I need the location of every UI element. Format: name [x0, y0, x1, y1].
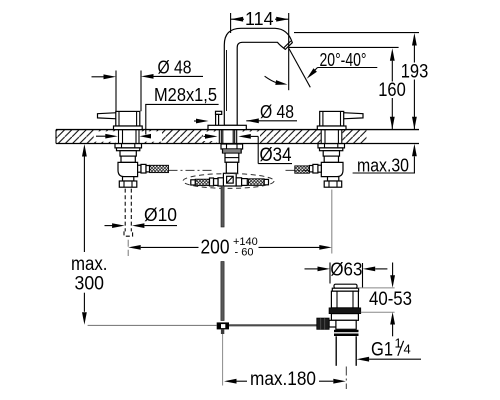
tee right connector [236, 178, 247, 186]
dim max.300 [71, 144, 108, 325]
right handle centreline [331, 190, 333, 254]
label 20°-40° [307, 50, 378, 79]
horizontal actuating rod right segment [229, 324, 317, 326]
hose centreline right [286, 169, 313, 171]
left handle dashed inlet pipes [124, 189, 133, 256]
left handle body [116, 111, 140, 126]
spout tube with curved outlet [224, 28, 292, 125]
svg-text:Ø63: Ø63 [330, 260, 362, 280]
left handle shank in deck [119, 130, 140, 144]
rod clamp [217, 322, 229, 334]
right handle mounting nut [318, 144, 345, 151]
dim 114 top width [231, 9, 289, 90]
tee left connector [210, 178, 224, 186]
hose centreline left [169, 169, 215, 171]
swivel arc arrow [265, 76, 288, 85]
tee left braided hose [191, 179, 210, 185]
spout escutcheon flange [208, 125, 246, 129]
dim Ø48 left handle [92, 58, 204, 113]
dim max.30 [353, 144, 417, 176]
left handle elbow [118, 162, 138, 176]
drain flange plug top [332, 284, 358, 291]
pop-up rod lower [221, 262, 224, 321]
drain centreline [345, 367, 347, 390]
deck arrow left of left-handle shank [96, 134, 118, 139]
dim Ø48 spout base [194, 102, 297, 123]
center tee block [223, 173, 236, 186]
right handle body [320, 111, 344, 126]
svg-text:- 60: - 60 [235, 246, 254, 258]
spout lift-rod knob [216, 111, 222, 125]
horizontal actuating rod left segment [88, 324, 217, 326]
left hose nipple [138, 164, 150, 173]
svg-text:114: 114 [245, 9, 274, 29]
left handle lever [98, 113, 118, 119]
spout shank in deck hole [219, 130, 236, 144]
dim 193 vertical [401, 33, 429, 129]
right handle shank in deck [321, 130, 342, 144]
right handle valve body [323, 151, 339, 163]
right handle escutcheon flange [317, 126, 346, 130]
right braided hose [295, 166, 310, 173]
label G1 1/4 [357, 336, 421, 362]
svg-text:G1: G1 [371, 340, 393, 361]
left handle valve body [120, 151, 136, 163]
drain body middle [331, 314, 358, 330]
dim max.180 [224, 369, 346, 390]
drain bottom collars [334, 330, 359, 336]
dim 160 vertical [378, 48, 406, 129]
left handle bottom fitting [119, 177, 137, 188]
drain gasket ring [329, 308, 361, 314]
svg-text:M28x1,5: M28x1,5 [154, 84, 217, 105]
left handle escutcheon flange [114, 126, 143, 130]
svg-text:300: 300 [75, 273, 105, 294]
spout mounting nut below deck [221, 144, 243, 153]
svg-text:4: 4 [404, 342, 411, 357]
clamp extension line down [222, 334, 224, 386]
right handle bottom fitting [324, 177, 342, 188]
dim Ø10 [105, 205, 178, 228]
right hose nipple [309, 164, 321, 173]
svg-text:Ø34: Ø34 [260, 145, 292, 166]
left handle mounting nut [115, 144, 142, 151]
left braided hose [150, 165, 169, 172]
dim 160 extension line [289, 46, 399, 48]
dim 40-53 [359, 263, 413, 337]
drain body upper [331, 291, 358, 308]
dim Ø63 [305, 260, 388, 288]
svg-text:160: 160 [378, 80, 406, 101]
svg-text:max.: max. [71, 254, 108, 275]
svg-text:Ø 48: Ø 48 [158, 58, 192, 78]
mounting deck hatched band [56, 130, 419, 144]
right handle elbow [321, 162, 343, 176]
svg-text:40-53: 40-53 [369, 289, 412, 310]
svg-text:Ø10: Ø10 [144, 205, 177, 225]
pop-up rod upper [221, 186, 224, 227]
svg-text:max.30: max.30 [357, 155, 409, 175]
drain tailpipe [336, 336, 356, 366]
right handle lever [343, 113, 363, 119]
svg-text:200: 200 [201, 236, 230, 258]
spout stream angle line [289, 49, 310, 88]
drain actuating knob [317, 318, 336, 329]
dim 200 +140 -60 [128, 236, 332, 258]
spout body below deck [225, 153, 239, 173]
dim 193 extension line [294, 32, 419, 34]
svg-text:max.180: max.180 [250, 369, 316, 390]
svg-text:Ø 48: Ø 48 [260, 102, 294, 122]
dim Ø34 [204, 134, 293, 166]
dashed swivel ellipse [183, 174, 274, 189]
tee right braided hose [249, 179, 269, 186]
label M28x1,5 [140, 84, 219, 139]
